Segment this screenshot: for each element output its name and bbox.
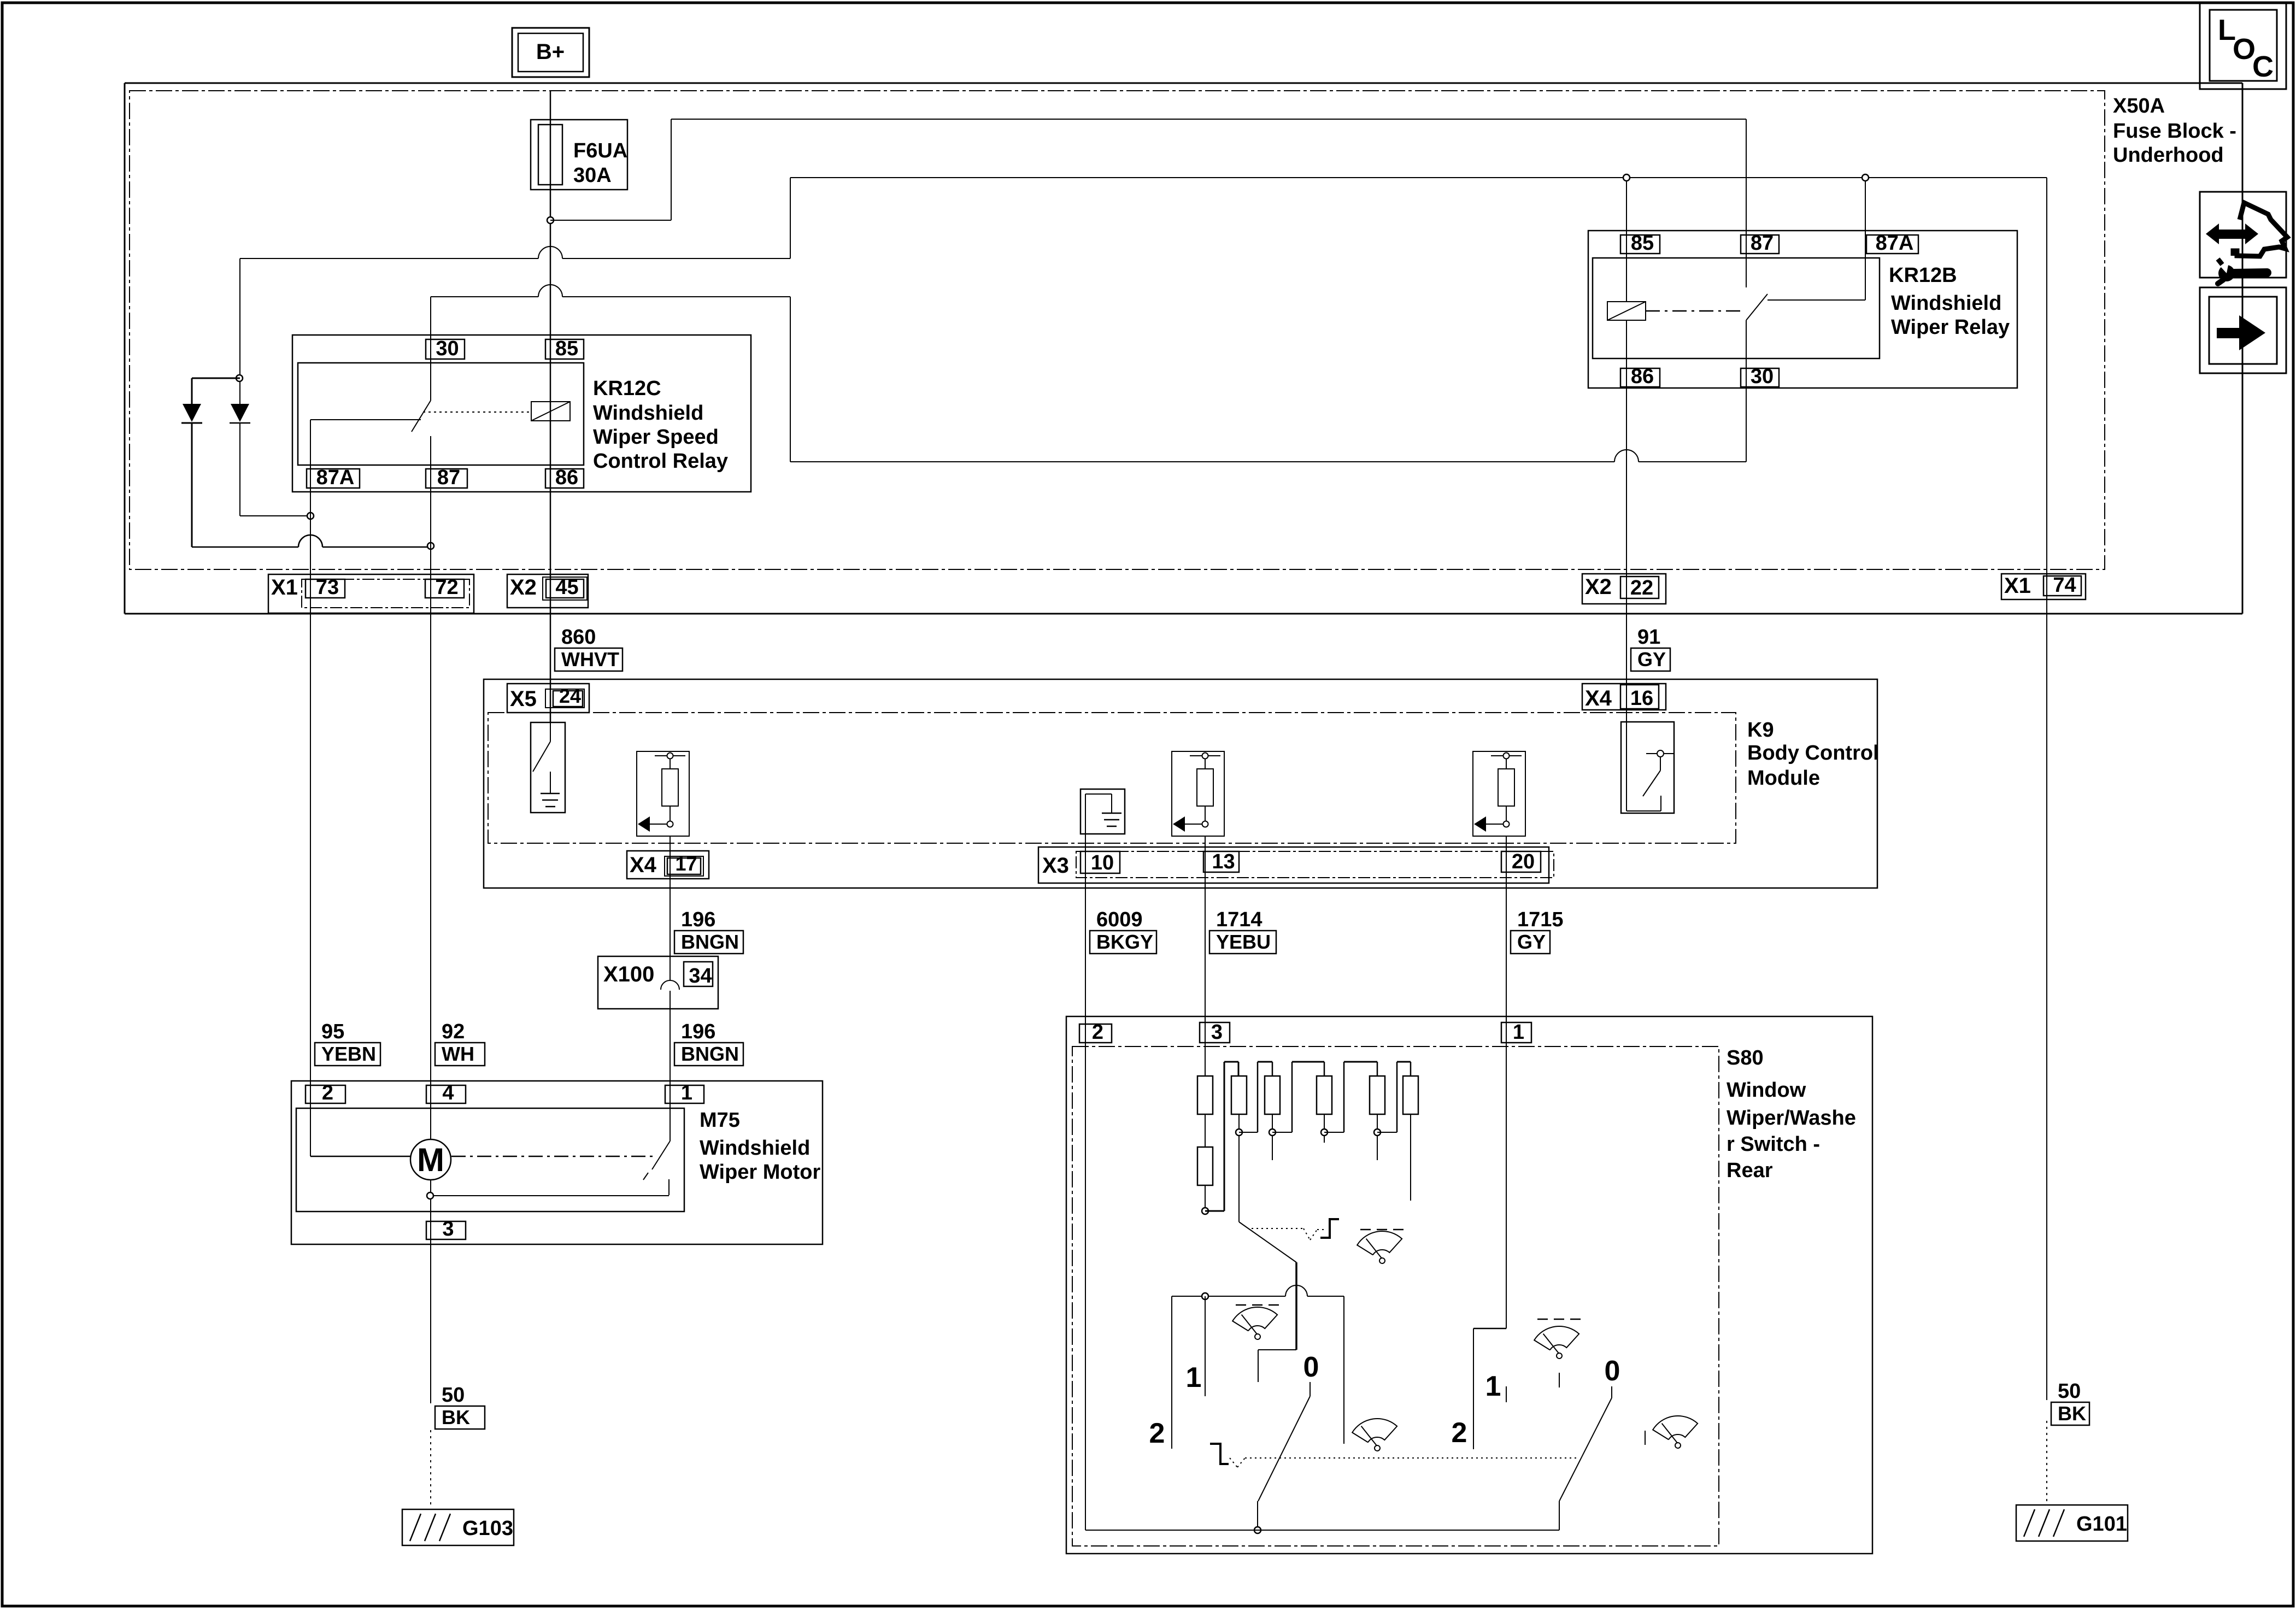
svg-text:X2: X2 bbox=[510, 575, 537, 599]
svg-text:X4: X4 bbox=[1585, 686, 1612, 710]
svg-text:50: 50 bbox=[442, 1384, 465, 1407]
svg-text:85: 85 bbox=[1631, 232, 1654, 255]
svg-text:91: 91 bbox=[1637, 626, 1660, 649]
svg-text:X3: X3 bbox=[1042, 854, 1069, 878]
svg-text:Wiper/Washe: Wiper/Washe bbox=[1727, 1107, 1856, 1130]
svg-text:GY: GY bbox=[1517, 931, 1546, 953]
svg-text:0: 0 bbox=[1303, 1351, 1319, 1383]
svg-text:30A: 30A bbox=[573, 164, 612, 187]
svg-text:2: 2 bbox=[322, 1081, 333, 1104]
svg-text:BK: BK bbox=[442, 1406, 470, 1428]
svg-text:3: 3 bbox=[1211, 1021, 1223, 1044]
svg-text:Windshield: Windshield bbox=[1891, 292, 2001, 315]
svg-text:87: 87 bbox=[1751, 232, 1774, 255]
svg-text:1: 1 bbox=[681, 1081, 692, 1104]
svg-text:Wiper Relay: Wiper Relay bbox=[1891, 316, 2010, 339]
svg-text:20: 20 bbox=[1512, 850, 1535, 873]
svg-text:X4: X4 bbox=[630, 853, 657, 877]
svg-text:17: 17 bbox=[675, 852, 697, 875]
svg-text:YEBU: YEBU bbox=[1216, 931, 1271, 953]
svg-text:6009: 6009 bbox=[1096, 908, 1143, 931]
svg-text:74: 74 bbox=[2053, 574, 2076, 597]
svg-text:16: 16 bbox=[1630, 687, 1653, 710]
svg-text:BNGN: BNGN bbox=[681, 931, 739, 953]
svg-text:Wiper Motor: Wiper Motor bbox=[700, 1161, 821, 1184]
svg-text:2: 2 bbox=[1149, 1418, 1165, 1449]
svg-text:4: 4 bbox=[442, 1081, 454, 1104]
svg-text:860: 860 bbox=[561, 626, 596, 649]
svg-text:Body Control: Body Control bbox=[1747, 742, 1879, 765]
svg-text:50: 50 bbox=[2058, 1380, 2081, 1403]
svg-text:K9: K9 bbox=[1747, 719, 1774, 742]
svg-text:196: 196 bbox=[681, 908, 715, 931]
svg-text:73: 73 bbox=[316, 576, 339, 599]
svg-text:Control Relay: Control Relay bbox=[593, 450, 728, 473]
svg-text:WHVT: WHVT bbox=[561, 648, 619, 671]
svg-text:X2: X2 bbox=[1585, 575, 1612, 599]
svg-text:Wiper Speed: Wiper Speed bbox=[593, 426, 719, 449]
svg-text:Module: Module bbox=[1747, 767, 1820, 790]
svg-text:1: 1 bbox=[1513, 1021, 1524, 1044]
svg-text:30: 30 bbox=[1751, 365, 1774, 388]
svg-text:30: 30 bbox=[436, 337, 459, 360]
svg-text:1715: 1715 bbox=[1517, 908, 1564, 931]
svg-text:Underhood: Underhood bbox=[2113, 144, 2224, 167]
svg-text:GY: GY bbox=[1637, 648, 1666, 671]
svg-text:34: 34 bbox=[689, 965, 712, 987]
svg-text:Windshield: Windshield bbox=[593, 402, 703, 425]
svg-text:X1: X1 bbox=[2004, 574, 2031, 598]
svg-text:1714: 1714 bbox=[1216, 908, 1262, 931]
svg-text:BNGN: BNGN bbox=[681, 1043, 739, 1065]
svg-text:BKGY: BKGY bbox=[1096, 931, 1153, 953]
svg-text:1: 1 bbox=[1186, 1362, 1202, 1393]
svg-text:Windshield: Windshield bbox=[700, 1137, 810, 1160]
svg-text:87A: 87A bbox=[316, 466, 355, 489]
svg-text:Window: Window bbox=[1727, 1079, 1806, 1102]
svg-text:87: 87 bbox=[437, 466, 460, 489]
svg-text:G101: G101 bbox=[2076, 1513, 2127, 1536]
svg-text:85: 85 bbox=[555, 337, 578, 360]
svg-text:13: 13 bbox=[1212, 850, 1235, 873]
svg-text:KR12C: KR12C bbox=[593, 377, 661, 400]
svg-text:1: 1 bbox=[1485, 1371, 1501, 1402]
svg-text:2: 2 bbox=[1452, 1417, 1467, 1449]
svg-text:C: C bbox=[2252, 50, 2274, 83]
svg-text:F6UA: F6UA bbox=[573, 139, 627, 162]
svg-text:10: 10 bbox=[1091, 851, 1114, 874]
svg-text:S80: S80 bbox=[1727, 1046, 1764, 1069]
svg-text:M75: M75 bbox=[700, 1109, 740, 1132]
svg-text:Rear: Rear bbox=[1727, 1159, 1773, 1182]
svg-text:r Switch -: r Switch - bbox=[1727, 1133, 1820, 1156]
svg-text:X1: X1 bbox=[271, 575, 298, 599]
svg-text:86: 86 bbox=[555, 466, 578, 489]
svg-text:Fuse Block -: Fuse Block - bbox=[2113, 120, 2236, 143]
svg-text:72: 72 bbox=[435, 576, 458, 599]
svg-text:M: M bbox=[417, 1142, 444, 1178]
svg-text:X100: X100 bbox=[603, 962, 654, 986]
svg-text:24: 24 bbox=[559, 685, 581, 707]
svg-text:2: 2 bbox=[1092, 1021, 1103, 1044]
svg-text:YEBN: YEBN bbox=[321, 1043, 376, 1065]
svg-text:86: 86 bbox=[1631, 365, 1654, 388]
svg-text:X50A: X50A bbox=[2113, 95, 2165, 117]
svg-text:WH: WH bbox=[442, 1043, 474, 1065]
svg-text:92: 92 bbox=[442, 1020, 465, 1043]
svg-text:B+: B+ bbox=[536, 40, 565, 64]
svg-text:196: 196 bbox=[681, 1020, 715, 1043]
svg-text:45: 45 bbox=[555, 576, 578, 599]
svg-text:22: 22 bbox=[1630, 577, 1653, 599]
svg-text:95: 95 bbox=[321, 1020, 344, 1043]
svg-text:0: 0 bbox=[1605, 1355, 1620, 1387]
svg-text:87A: 87A bbox=[1876, 232, 1914, 255]
svg-text:3: 3 bbox=[442, 1218, 454, 1240]
svg-text:BK: BK bbox=[2058, 1402, 2086, 1425]
svg-text:G103: G103 bbox=[462, 1517, 513, 1540]
svg-text:KR12B: KR12B bbox=[1889, 264, 1957, 287]
svg-text:X5: X5 bbox=[510, 687, 537, 711]
